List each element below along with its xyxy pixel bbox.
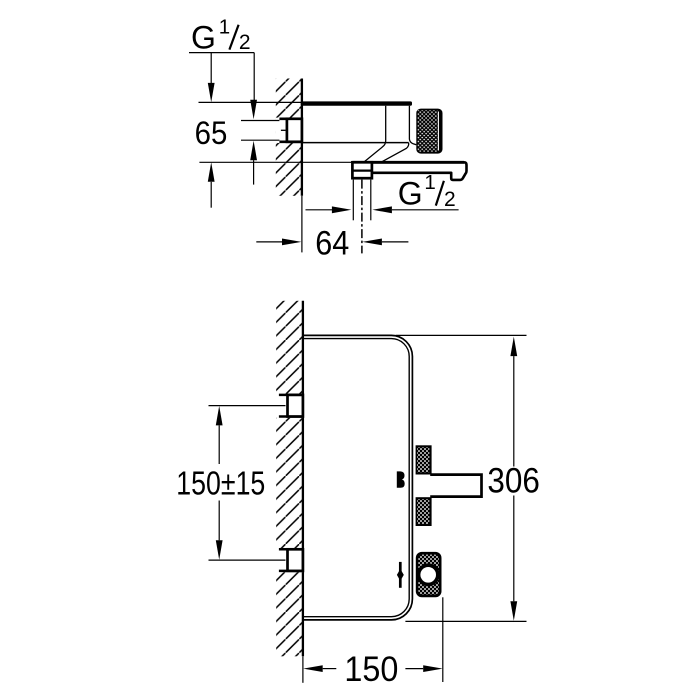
outlet extension line right: [370, 180, 372, 221]
svg-text:G: G: [191, 19, 216, 55]
outlet centerline: [361, 180, 363, 254]
wall hatch top: [276, 79, 302, 196]
dim G1/2 top: left vertical + arrow down: [210, 53, 212, 84]
svg-text:150±15: 150±15: [176, 465, 265, 502]
nipple white backdrop: [276, 118, 302, 143]
outlet extension line left: [352, 180, 354, 221]
spout top thick line: [352, 161, 464, 164]
dim 150±15: vertical line with arrows: [216, 406, 223, 426]
wall face extension down to 64 dim: [301, 196, 303, 253]
wall face extension to 150 dim: [302, 656, 304, 683]
wall hatch lower: [276, 301, 303, 657]
inlet nipple flange bottom: [279, 141, 302, 144]
dim 150: left arrow: [303, 665, 323, 672]
diverter knob with circle: [416, 552, 442, 597]
knurled ring upper: [416, 445, 432, 474]
knurled ring lower: [416, 497, 432, 526]
spout outline: [352, 162, 466, 180]
shower outlet pipe: [430, 475, 481, 497]
body top bar: [301, 101, 412, 105]
nipple extension line top: [241, 120, 279, 122]
bracket upper white backdrop: [276, 394, 303, 418]
svg-text:1: 1: [219, 15, 230, 38]
wall bracket upper: [279, 394, 303, 397]
nipple extension line bottom: [241, 139, 279, 141]
dim 306: vertical line with arrows: [510, 337, 517, 357]
svg-text:G: G: [398, 175, 423, 211]
dim G1/2 lower: left arrow: [306, 209, 333, 211]
dim 150±15: extension lines: [209, 405, 286, 407]
inlet nipple flange top: [279, 118, 302, 121]
dim G1/2 lower: right arrow: [372, 206, 392, 213]
body cone diagonal D2: [382, 143, 409, 162]
inlet nipple box: [287, 119, 302, 142]
nipple center tick: [281, 129, 286, 131]
dim 306: extension lines: [396, 334, 527, 336]
wall face line lower: [302, 301, 304, 657]
dim G1/2 top: right vertical + arrow down: [253, 53, 255, 100]
svg-text:306: 306: [487, 462, 540, 501]
svg-text:150: 150: [344, 650, 398, 689]
bracket lower white backdrop: [276, 548, 303, 572]
dim 65: extension line top: [199, 101, 302, 103]
wall bracket lower: [279, 548, 303, 551]
dim G1/2 top: leader underline: [189, 52, 254, 54]
shower outlet box under body: [352, 162, 372, 178]
dim 65: extension line bottom: [199, 161, 352, 163]
body vertical V2: [409, 106, 416, 145]
dim 65: up arrow: [208, 162, 215, 182]
dim 150: right arrow: [405, 668, 423, 670]
outlet box divider: [352, 169, 372, 171]
dim 64: left arrow: [256, 241, 282, 243]
nipple up arrow: [250, 141, 257, 161]
flow mark icon: [399, 562, 402, 588]
wall face line top: [301, 79, 303, 196]
knurled knob (temperature handle): [416, 109, 442, 154]
D mark icon: [397, 471, 405, 487]
body vertical V1: [365, 106, 386, 162]
svg-text:2: 2: [444, 188, 456, 211]
svg-text:64: 64: [315, 225, 349, 263]
svg-text:65: 65: [195, 114, 228, 151]
body bottom H1: [302, 142, 409, 144]
dim 64: right arrow: [362, 239, 382, 246]
device body outer outline: [303, 335, 413, 620]
svg-text:2: 2: [239, 31, 251, 54]
device body inner line: [303, 339, 409, 617]
svg-text:1: 1: [424, 171, 435, 194]
diverter extension line: [442, 597, 444, 682]
